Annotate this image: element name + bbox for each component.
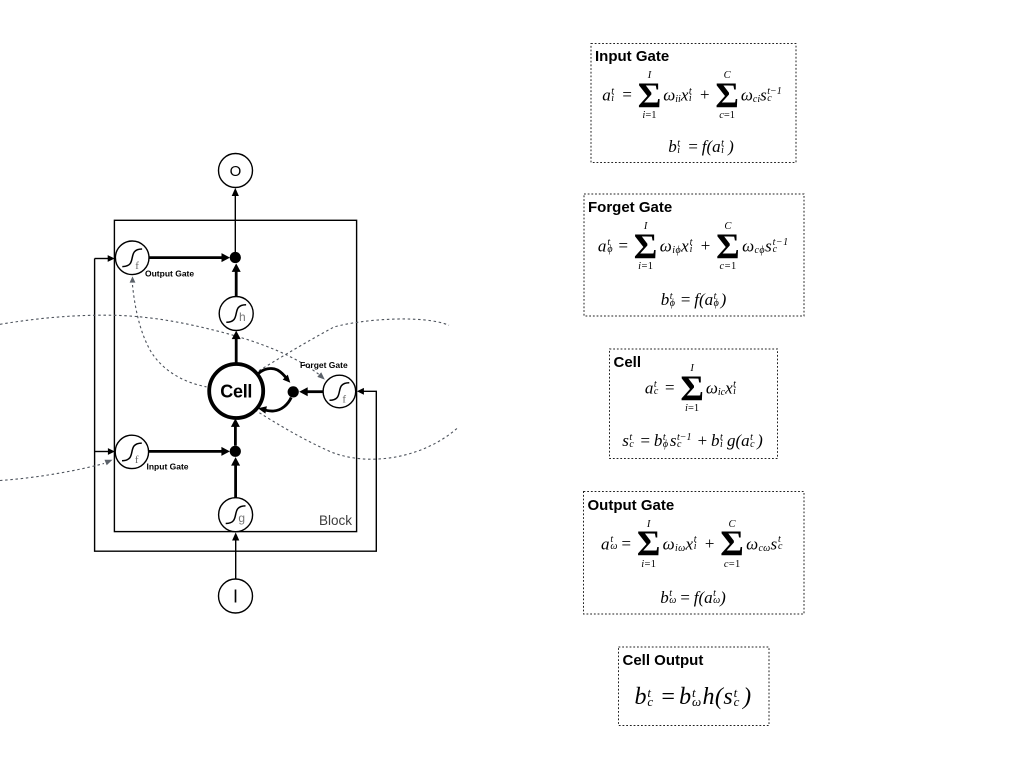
- block rectangle: [114, 220, 356, 531]
- node I: [219, 579, 253, 613]
- arrow junction to cell: [234, 426, 237, 446]
- svg-text:O: O: [230, 163, 242, 180]
- forget gate unit: [323, 375, 356, 408]
- wire dot-top to O: [234, 195, 236, 258]
- output gate unit: [115, 241, 149, 275]
- peephole dashed curve lower right: [255, 410, 457, 459]
- peephole dashed curve to output gate: [133, 285, 207, 387]
- peephole dashed curve to input gate: [0, 464, 104, 481]
- svg-text:f: f: [342, 394, 346, 406]
- node O: [219, 154, 253, 188]
- forget gate panel border: [584, 194, 804, 316]
- equation box input gate: [591, 43, 795, 161]
- svg-text:f: f: [135, 260, 139, 272]
- svg-text:Forget Gate: Forget Gate: [300, 360, 348, 370]
- arrow output gate to junction: [149, 256, 222, 259]
- wire branch to input gate: [95, 451, 108, 453]
- equation box forget gate: [584, 194, 803, 315]
- wire arrow into forget gate: [357, 388, 364, 395]
- cell panel border: [610, 349, 778, 459]
- output gate panel border: [584, 492, 805, 615]
- svg-text:f: f: [135, 454, 139, 466]
- self loop upper arc: [259, 368, 288, 379]
- junction node bottom: [230, 446, 241, 457]
- arrow cell to h: [235, 339, 238, 364]
- self loop lower arc: [263, 398, 292, 412]
- junction node top: [230, 252, 241, 263]
- svg-text:h: h: [239, 310, 246, 324]
- equation box output gate: [584, 492, 803, 613]
- peephole dashed curve upper right: [255, 319, 450, 374]
- svg-text:Block: Block: [319, 513, 352, 528]
- input gate unit: [115, 435, 148, 468]
- svg-text:Input Gate: Input Gate: [147, 462, 189, 472]
- equation box cell output: [619, 647, 768, 724]
- g unit: [219, 498, 253, 532]
- arrow h to junction: [235, 271, 238, 297]
- arrow forget gate to junction: [307, 390, 323, 393]
- cell output panel border: [619, 647, 770, 726]
- peephole dashed curve to forget gate: [0, 315, 319, 374]
- wire I to g: [235, 540, 237, 580]
- arrow g to junction: [234, 465, 237, 498]
- equation box cell: [610, 349, 776, 457]
- svg-text:g: g: [238, 511, 245, 525]
- input gate panel border: [591, 44, 796, 163]
- junction node loop: [288, 386, 299, 397]
- h unit: [219, 297, 253, 331]
- arrow input gate to junction: [149, 450, 222, 453]
- svg-text:I: I: [233, 587, 238, 607]
- wire branch to output gate: [95, 258, 108, 260]
- cell unit: [209, 364, 263, 418]
- svg-text:Output Gate: Output Gate: [145, 269, 194, 279]
- svg-text:Cell: Cell: [220, 382, 252, 402]
- wire outer recurrent path: [95, 259, 377, 552]
